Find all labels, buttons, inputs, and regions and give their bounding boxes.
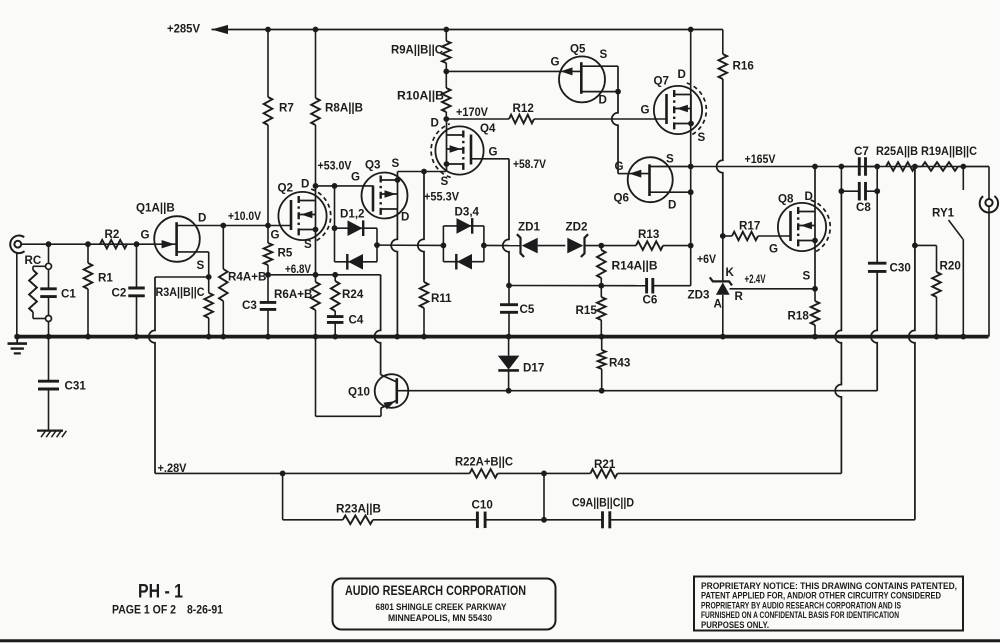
bottom sheet border bbox=[0, 639, 1000, 642]
wire: C30 column down to bias line (hops rail) bbox=[871, 271, 877, 390]
wire: +6.8V node down to Q10 collector (hops rail) bbox=[374, 275, 380, 375]
resistor R10A||B bbox=[442, 88, 451, 112]
svg-text:6801 SHINGLE CREEK PARKWAY: 6801 SHINGLE CREEK PARKWAY bbox=[376, 602, 508, 612]
wire Q4 gate to +58.7V column bbox=[471, 158, 509, 160]
svg-text:AUDIO RESEARCH CORPORATION: AUDIO RESEARCH CORPORATION bbox=[345, 583, 526, 598]
wire: input signal line bbox=[21, 243, 176, 245]
svg-text:PURPOSES ONLY.: PURPOSES ONLY. bbox=[701, 620, 769, 630]
svg-text:C7: C7 bbox=[854, 145, 869, 158]
wire Q6 drain bbox=[650, 191, 691, 193]
capacitor C10 bbox=[476, 512, 479, 529]
svg-text:R12: R12 bbox=[513, 102, 534, 115]
svg-text:D: D bbox=[678, 68, 686, 81]
svg-text:D1,2: D1,2 bbox=[340, 208, 365, 221]
wire Q3 drain down to rail (hops signal wire) bbox=[391, 209, 397, 337]
wire Q10 emitter loop to rail node bbox=[316, 415, 382, 417]
svg-text:RC: RC bbox=[25, 254, 42, 267]
wire +170V line / resistor R12 bbox=[446, 118, 509, 120]
node +170V bbox=[443, 116, 449, 122]
diode D17 bbox=[508, 337, 510, 356]
svg-text:+6.8V: +6.8V bbox=[285, 263, 311, 276]
wire D3,4 to ZD1 bbox=[484, 244, 520, 246]
svg-text:D: D bbox=[198, 212, 206, 225]
svg-text:C5: C5 bbox=[520, 303, 535, 316]
transistor Q10 (BJT) bbox=[375, 374, 409, 408]
transistor Q6 (JFET) bbox=[628, 157, 673, 202]
svg-text:PAGE 1 OF 2: PAGE 1 OF 2 bbox=[112, 604, 176, 617]
svg-text:D: D bbox=[805, 190, 813, 203]
svg-text:R4A+B: R4A+B bbox=[228, 271, 266, 284]
resistor R15 bbox=[597, 297, 606, 320]
svg-text:S: S bbox=[304, 238, 312, 251]
wire D1,2 output to D3,4 bbox=[377, 244, 443, 246]
resistor R11 (on +55.3V to ground column, hops signal wire) bbox=[418, 172, 424, 283]
svg-text:PATENT APPLIED FOR, AND/OR OTH: PATENT APPLIED FOR, AND/OR OTHER CIRCUIT… bbox=[701, 591, 941, 601]
svg-text:R21: R21 bbox=[594, 458, 616, 471]
svg-text:S: S bbox=[197, 259, 205, 272]
capacitor C6 bbox=[645, 278, 648, 294]
svg-text:R2: R2 bbox=[105, 228, 120, 241]
svg-text:+285V: +285V bbox=[167, 23, 200, 36]
svg-text:R17: R17 bbox=[739, 220, 760, 233]
node RC terminals (open circles) bbox=[46, 263, 52, 269]
svg-text:D: D bbox=[301, 178, 309, 191]
wire +58.7V column down (hops ZD wire) to C5 node bbox=[503, 159, 509, 286]
wire Q8 source to +2.4V node bbox=[814, 241, 816, 289]
svg-text:R1: R1 bbox=[98, 272, 113, 285]
wire +10.0V line to Q2 gate bbox=[223, 225, 291, 227]
svg-text:C30: C30 bbox=[890, 262, 911, 275]
svg-text:C2: C2 bbox=[112, 287, 127, 300]
svg-text:S: S bbox=[441, 175, 449, 188]
svg-text:S: S bbox=[600, 48, 608, 61]
svg-text:RY1: RY1 bbox=[932, 207, 955, 220]
svg-text:G: G bbox=[641, 104, 650, 117]
capacitor C1 bbox=[48, 244, 50, 263]
svg-text:S: S bbox=[392, 157, 400, 170]
input RCA jack bbox=[10, 236, 24, 254]
transistor Q3 (MOSFET, arrow out) bbox=[362, 173, 408, 219]
resistor R9A||B||C bbox=[445, 30, 447, 42]
svg-text:D: D bbox=[668, 199, 676, 212]
svg-text:S: S bbox=[666, 153, 674, 166]
resistor R8A||B bbox=[315, 30, 317, 99]
svg-text:D: D bbox=[599, 94, 607, 107]
wire Q2 source to +6.8V node bbox=[315, 230, 317, 275]
svg-text:A: A bbox=[714, 298, 723, 311]
svg-text:R5: R5 bbox=[278, 247, 293, 260]
svg-text:+55.3V: +55.3V bbox=[424, 191, 459, 204]
resistor R1 bbox=[87, 244, 89, 263]
resistor R25A||B bbox=[886, 162, 915, 171]
svg-text:Q3: Q3 bbox=[365, 159, 381, 172]
svg-text:R10A||B: R10A||B bbox=[397, 90, 444, 103]
svg-text:8-26-91: 8-26-91 bbox=[187, 604, 223, 617]
svg-text:PROPRIETARY BY AUDIO RESEARCH: PROPRIETARY BY AUDIO RESEARCH CORPORATIO… bbox=[701, 600, 901, 610]
transistor Q4 (MOSFET, mirrored) bbox=[435, 126, 483, 174]
svg-text:G: G bbox=[769, 243, 778, 256]
title block: Audio Research Corporation bbox=[333, 579, 556, 630]
svg-text:+165V: +165V bbox=[745, 153, 776, 166]
transistor Q5 (JFET) bbox=[559, 56, 605, 102]
resistor R16 (rail corner down, hops +165V line) bbox=[721, 29, 724, 31]
capacitor C5 bbox=[508, 286, 510, 305]
svg-text:PH - 1: PH - 1 bbox=[138, 582, 183, 603]
resistor R2 bbox=[100, 240, 127, 249]
svg-text:G: G bbox=[489, 146, 498, 159]
svg-text:R3A||B||C: R3A||B||C bbox=[156, 286, 206, 299]
svg-text:C8: C8 bbox=[856, 201, 871, 214]
proprietary notice box bbox=[694, 577, 963, 631]
svg-text:R43: R43 bbox=[609, 357, 631, 370]
svg-text:+6V: +6V bbox=[697, 253, 716, 266]
transistor Q2 (MOSFET) bbox=[278, 192, 326, 240]
svg-text:D: D bbox=[431, 117, 439, 130]
node +55.3V line bbox=[398, 171, 447, 173]
wire Q8 drain to +165V bbox=[814, 167, 816, 212]
wire: bias line (Q10 base / D17 / R43 / C30) bbox=[397, 390, 877, 392]
node +6.8V and wire bbox=[265, 272, 271, 278]
svg-text:C10: C10 bbox=[472, 499, 493, 512]
svg-text:Q10: Q10 bbox=[348, 386, 370, 399]
svg-text:R23A||B: R23A||B bbox=[336, 503, 381, 516]
resistor R13 bbox=[636, 241, 663, 250]
svg-text:D3,4: D3,4 bbox=[455, 206, 480, 219]
svg-text:C1: C1 bbox=[61, 288, 76, 301]
resistor R5 bbox=[267, 226, 269, 244]
svg-text:G: G bbox=[351, 171, 360, 184]
capacitor C31 bbox=[48, 337, 50, 381]
svg-text:R25A||B: R25A||B bbox=[876, 145, 918, 158]
transistor Q1A||B (JFET) bbox=[154, 216, 200, 262]
svg-text:MINNEAPOLIS, MN 55430: MINNEAPOLIS, MN 55430 bbox=[388, 613, 492, 623]
svg-text:R16: R16 bbox=[733, 60, 755, 73]
resistor R21 bbox=[590, 469, 617, 478]
svg-text:+2.4V: +2.4V bbox=[745, 273, 766, 286]
resistor R14A||B bbox=[600, 246, 602, 250]
capacitor C2 bbox=[136, 244, 138, 287]
resistor R4A+B bbox=[222, 226, 224, 270]
wire Q4 source down to +55.3V line bbox=[446, 164, 448, 172]
ground symbol (below C31, hatched) bbox=[37, 430, 63, 432]
wire: Q1 source feedback jog to bottom bbox=[155, 276, 209, 278]
svg-text:R9A||B||C: R9A||B||C bbox=[391, 44, 444, 57]
resistor R6A+B bbox=[315, 275, 317, 282]
svg-text:+170V: +170V bbox=[456, 106, 488, 119]
svg-text:+58.7V: +58.7V bbox=[513, 158, 546, 171]
svg-text:K: K bbox=[726, 266, 735, 279]
ground symbol (left, below rail) bbox=[16, 337, 18, 344]
svg-text:PROPRIETARY NOTICE: THIS DRA: PROPRIETARY NOTICE: THIS DRAWING CONTAIN… bbox=[701, 581, 957, 591]
svg-text:C3: C3 bbox=[242, 299, 257, 312]
capacitor C30 bbox=[876, 191, 878, 263]
svg-text:Q2: Q2 bbox=[278, 182, 293, 195]
resistor R3A||B||C bbox=[206, 274, 212, 280]
svg-text:R24: R24 bbox=[342, 288, 364, 301]
wire Q2 drain to +53.0V node bbox=[315, 186, 317, 201]
svg-text:R15: R15 bbox=[576, 304, 598, 317]
resistor RC bbox=[33, 265, 46, 267]
wire Q5 S/D node down to Q6 gate (hops +170V wire) bbox=[612, 92, 618, 174]
resistor R20 bbox=[915, 244, 937, 246]
svg-text:C31: C31 bbox=[65, 380, 87, 393]
svg-text:G: G bbox=[141, 229, 150, 242]
wire: C7/C8 left column down to R21 feedback (hops rail and bias line) bbox=[835, 191, 841, 473]
wire Q4 drain to +170V node bbox=[446, 119, 448, 135]
svg-text:R7: R7 bbox=[279, 102, 294, 115]
capacitor C9A||B||C||D bbox=[601, 511, 604, 528]
wire: R25/R19 node column down to C9 feedback (hops rail) bbox=[909, 167, 915, 520]
svg-text:C9A||B||C||D: C9A||B||C||D bbox=[572, 497, 634, 510]
node +10.0V bbox=[220, 223, 226, 229]
svg-text:+53.0V: +53.0V bbox=[318, 160, 352, 173]
svg-text:C4: C4 bbox=[349, 314, 364, 327]
svg-text:G: G bbox=[551, 56, 560, 69]
svg-text:G: G bbox=[615, 160, 624, 173]
svg-text:R19A||B||C: R19A||B||C bbox=[921, 145, 978, 158]
svg-text:R18: R18 bbox=[788, 310, 810, 323]
svg-text:R14A||B: R14A||B bbox=[612, 260, 658, 273]
svg-text:Q1A||B: Q1A||B bbox=[136, 202, 175, 215]
zener ZD1 bbox=[522, 238, 538, 254]
svg-text:+10.0V: +10.0V bbox=[228, 210, 261, 223]
wire Q5 gate from R9/R10 node bbox=[446, 70, 581, 72]
resistor R43 (below rail) bbox=[601, 337, 603, 350]
resistor R19A||B||C bbox=[915, 166, 922, 168]
transistor Q7 (MOSFET) bbox=[654, 86, 702, 134]
svg-text:ZD3: ZD3 bbox=[688, 289, 710, 302]
svg-text:ZD2: ZD2 bbox=[566, 221, 588, 234]
node +53.0V line bbox=[313, 183, 319, 189]
resistor R7 bbox=[267, 30, 269, 98]
resistor R24 bbox=[334, 275, 336, 281]
svg-text:C6: C6 bbox=[643, 294, 658, 307]
transistor Q8 (MOSFET) bbox=[778, 203, 826, 251]
node: +58.7V horizontal line bbox=[598, 283, 604, 289]
svg-text:D: D bbox=[401, 211, 409, 224]
resistor R18 bbox=[811, 301, 820, 325]
capacitor C4 bbox=[334, 311, 336, 316]
wire: lower feedback branch bbox=[282, 473, 284, 519]
zener ZD3 (adjustable) bbox=[722, 236, 724, 281]
resistor R23A||B bbox=[343, 516, 373, 525]
wire Q3 source up to +55.3V line bbox=[397, 172, 399, 181]
wire: +285V rail down through Q7 to R13 node and C6 corner bbox=[690, 30, 692, 286]
ground rail (main horizontal ground bus) bbox=[15, 335, 989, 339]
svg-text:FURNISHED ON A CONFIDENTAL BAS: FURNISHED ON A CONFIDENTAL BASIS FOR IDE… bbox=[701, 610, 899, 620]
node Q5 gate / R9-R10 junction bbox=[443, 69, 449, 75]
svg-text:R13: R13 bbox=[638, 228, 660, 241]
svg-text:Q7: Q7 bbox=[654, 75, 669, 88]
svg-text:R6A+B: R6A+B bbox=[274, 288, 312, 301]
svg-text:ZD1: ZD1 bbox=[518, 221, 540, 234]
wire ZD3 R terminal / +2.4V line bbox=[730, 288, 816, 290]
svg-text:G: G bbox=[271, 229, 280, 242]
wire ZD2 to R13 bbox=[585, 245, 636, 247]
svg-text:R11: R11 bbox=[431, 292, 452, 305]
svg-text:S: S bbox=[698, 131, 706, 144]
resistor R22A+B||C bbox=[470, 469, 498, 478]
svg-text:Q6: Q6 bbox=[614, 192, 630, 205]
svg-text:R: R bbox=[735, 290, 744, 303]
svg-text:Q8: Q8 bbox=[778, 193, 794, 206]
wire Q6 source = +165V line start bbox=[650, 166, 691, 168]
svg-text:Q5: Q5 bbox=[570, 43, 586, 56]
svg-text:R22A+B||C: R22A+B||C bbox=[455, 456, 514, 469]
zener ZD2 bbox=[567, 238, 583, 254]
output RCA jack bbox=[988, 167, 990, 200]
svg-text:D17: D17 bbox=[523, 362, 544, 375]
svg-text:R20: R20 bbox=[940, 260, 961, 273]
svg-text:S: S bbox=[803, 270, 811, 283]
svg-text:Q4: Q4 bbox=[480, 122, 496, 135]
resistor R17 bbox=[723, 235, 732, 237]
capacitor C3 bbox=[267, 275, 269, 302]
svg-text:R8A||B: R8A||B bbox=[325, 102, 363, 115]
